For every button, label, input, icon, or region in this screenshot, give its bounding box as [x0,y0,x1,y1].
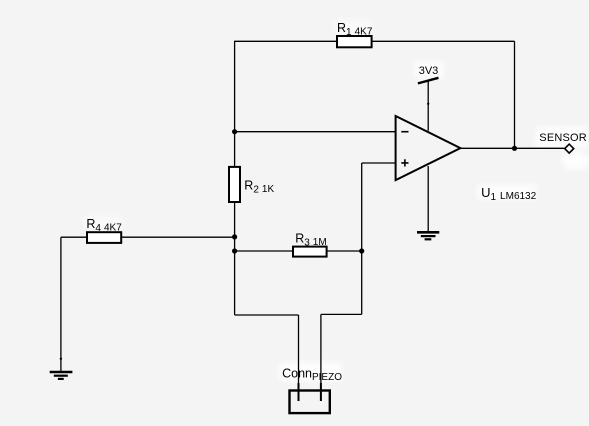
resistor R4 [87,232,121,243]
svg-text:R21K: R21K [244,179,274,196]
wire end dot [60,358,62,360]
wire: inverting input horizontal [235,131,396,133]
wire: R4 net left vertical to ground [60,237,62,371]
wire end dot on supply [427,103,429,105]
wire: top-left vertical (feedback net down to R2) [234,41,236,167]
op-amp plus input symbol [401,159,408,166]
ground GND2 (below op-amp) [417,232,439,239]
wire: R3 right to node [327,250,362,252]
resistor R2 [229,167,240,202]
svg-text:3V3: 3V3 [419,65,439,77]
wire: non-inverting horizontal stub to op-amp [362,162,396,164]
wire: R4 right to center node [121,236,234,238]
wire: op-amp output to SENSOR [460,147,565,149]
junction: R3 right node [359,248,364,253]
connector Conn pin 1 [298,383,300,401]
wire: top horizontal left of R1 [234,40,337,42]
junction: output node [512,146,517,151]
resistor R1 [337,36,372,47]
connector Conn PIEZO body [290,391,330,414]
wire: left horizontal to R4 [61,236,87,238]
wire: right connector horizontal [321,313,362,315]
junction: R3 left node [232,248,237,253]
wire: op-amp V- pin down to ground [427,166,429,232]
resistor R3 [293,247,327,257]
ground GND1 (left) [50,372,73,379]
wire: R2 bottom vertical down through junctions [234,202,236,315]
wire: non-inverting vertical [361,163,363,314]
wire: left connector horizontal [235,314,299,316]
junction: inverting node on left vertical [232,129,237,134]
wire: left connector vertical down [298,315,300,390]
node SENSOR pin diamond [565,144,574,153]
junction: R4/R2 node [232,234,237,239]
op-amp minus input symbol [401,131,408,133]
wire: top horizontal right of R1 [372,40,515,42]
wire: right connector vertical down [320,314,322,390]
wire: 3V3 down to op-amp V+ pin [427,81,429,131]
op-amp U1 triangle [396,116,461,180]
svg-text:SENSOR: SENSOR [539,132,587,144]
wire: to R3 left [235,250,293,252]
wire: right vertical (feedback to output) [514,41,516,148]
label halo backgrounds [84,20,589,381]
connector Conn pin 2 [320,383,322,401]
power 3V3 bar [418,78,439,84]
